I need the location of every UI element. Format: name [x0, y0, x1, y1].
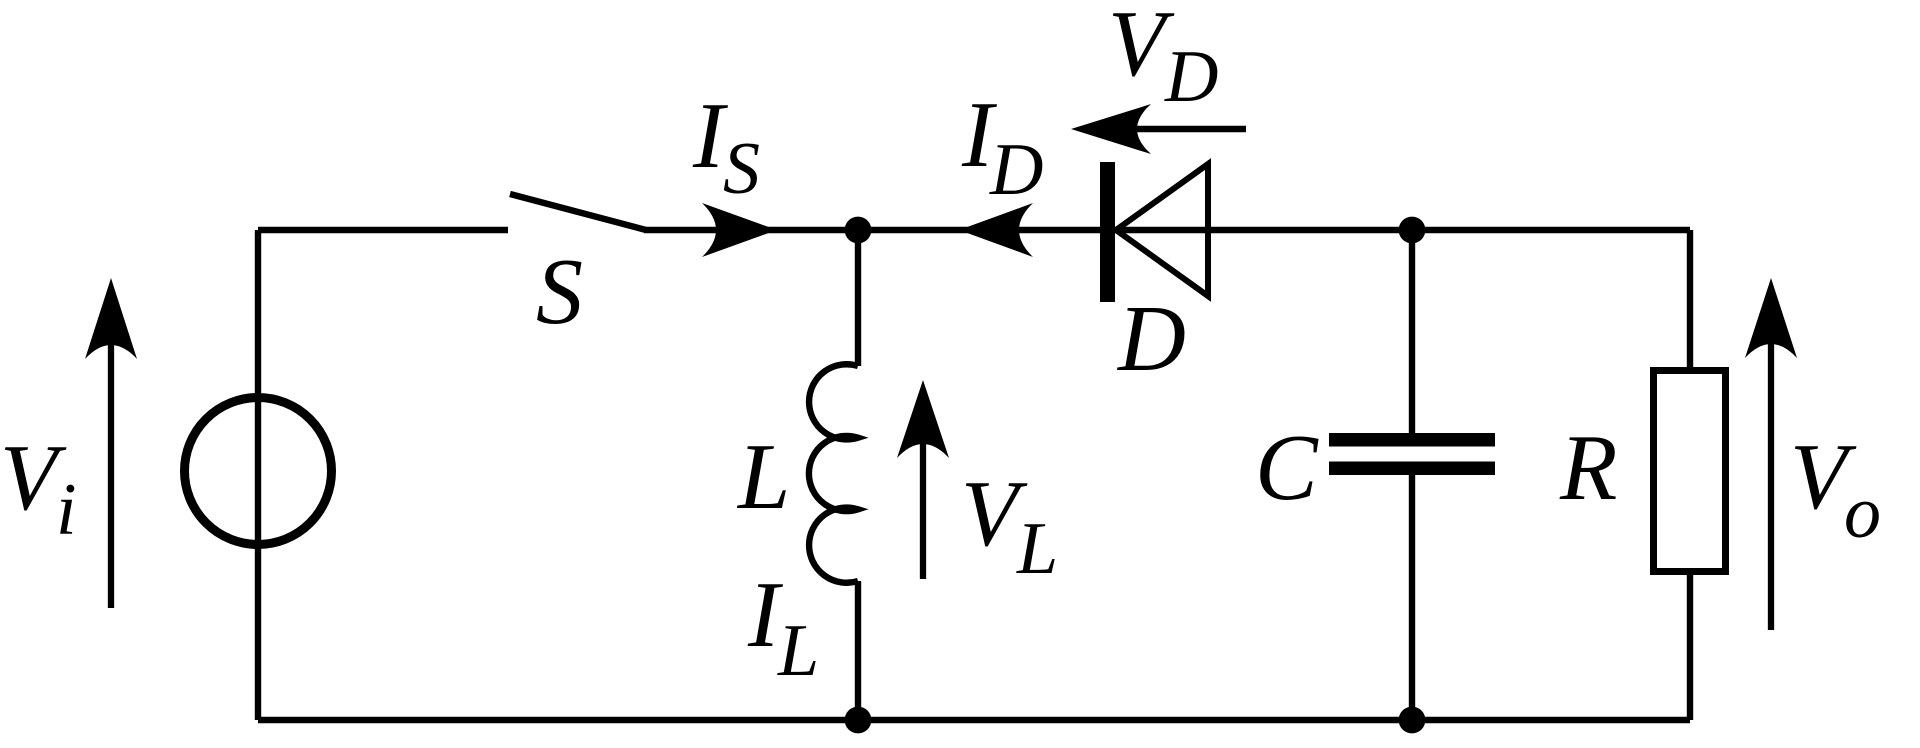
- wire inductor bottom stem: [855, 581, 861, 720]
- svg-text:i: i: [56, 469, 77, 551]
- arrow V_o shaft: [1768, 340, 1774, 630]
- wire inductor top stem: [855, 230, 861, 366]
- arrow V_o head: [1745, 278, 1797, 358]
- svg-text:L: L: [1016, 508, 1058, 590]
- wire top-left horizontal: [258, 227, 508, 233]
- arrow V_L shaft: [920, 440, 926, 579]
- arrow V_D head: [1071, 104, 1151, 154]
- arrow V_L head: [897, 380, 949, 458]
- voltage source Vi circle: [185, 398, 332, 545]
- label Vi: [0, 426, 77, 551]
- arrow V_D shaft: [1135, 126, 1246, 132]
- node dot bottom-left junction: [845, 707, 872, 734]
- label V_D: [1108, 0, 1218, 118]
- diode D cathode bar: [1100, 162, 1115, 302]
- capacitor C bottom plate: [1329, 462, 1495, 476]
- label V_o: [1790, 425, 1881, 554]
- wire capacitor top stem: [1409, 230, 1415, 433]
- arrow Vi shaft: [108, 340, 114, 608]
- arrow I_D head: [959, 203, 1033, 257]
- svg-text:S: S: [723, 128, 760, 210]
- wire top-right horizontal: [644, 227, 1690, 233]
- label I_D: [961, 83, 1043, 211]
- svg-text:L: L: [736, 425, 790, 529]
- wire capacitor bottom stem: [1409, 475, 1415, 720]
- svg-text:L: L: [777, 610, 819, 692]
- inductor L coil: [809, 364, 858, 582]
- svg-text:D: D: [1116, 287, 1186, 391]
- resistor R body: [1654, 371, 1726, 572]
- label I_L: [747, 563, 819, 692]
- wire right vertical: [1687, 230, 1693, 720]
- wire bottom horizontal: [258, 717, 1690, 723]
- node dot top-left junction: [845, 217, 872, 244]
- wire left vertical: [255, 230, 261, 720]
- arrow Vi head: [85, 278, 137, 359]
- arrow I_S head: [702, 203, 777, 257]
- svg-text:D: D: [1164, 36, 1218, 118]
- diode D triangle: [1116, 164, 1208, 296]
- label V_L: [961, 462, 1058, 590]
- svg-text:D: D: [989, 129, 1043, 211]
- capacitor C top plate: [1329, 433, 1495, 447]
- svg-text:R: R: [1559, 416, 1617, 520]
- svg-text:C: C: [1255, 416, 1319, 520]
- label I_S: [692, 84, 760, 210]
- node dot top-right junction: [1399, 217, 1426, 244]
- node dot bottom-right junction: [1399, 707, 1426, 734]
- svg-text:o: o: [1844, 472, 1881, 554]
- switch S lever: [510, 194, 646, 230]
- svg-text:S: S: [536, 240, 583, 344]
